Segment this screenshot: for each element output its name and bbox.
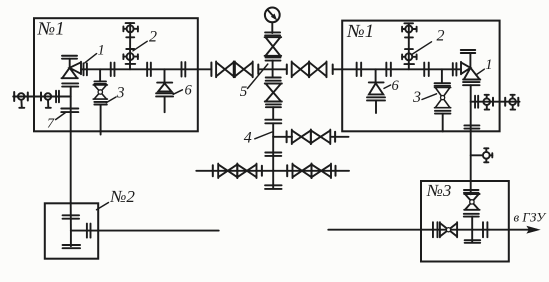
svg-text:6: 6 (185, 83, 193, 99)
flange pair 7 (61, 108, 78, 110)
end tick of left sampling line (13, 92, 15, 101)
valve 6 (left): flange (156, 92, 173, 94)
flange pair below tee (266, 77, 281, 79)
wire: right descent to box No.3 (470, 131, 472, 194)
valve 3 (right): body (435, 88, 451, 108)
flange pair in box2 (branch) (86, 224, 88, 238)
valve 3 (right): lower flange (435, 110, 451, 112)
cock 2 (left) upper (127, 25, 134, 32)
flange pair (452, 63, 454, 76)
valve 6 (right): flange (367, 96, 385, 98)
angle valve 1 (left): cap flange (62, 55, 77, 57)
flange pair under box3 valve (464, 213, 479, 215)
svg-text:2: 2 (437, 28, 445, 45)
flange pair (482, 222, 484, 237)
wire: row-2 header (left) (196, 170, 273, 172)
valve 3 (left): lower flange (94, 101, 107, 103)
label 7 leader (56, 113, 66, 120)
gate valve (main) D (309, 61, 326, 77)
gate valve (main) B (235, 61, 253, 77)
angle valve 1 (left): stem (69, 59, 71, 68)
flange tick (27, 93, 29, 101)
valve 3 (left): body (93, 85, 107, 99)
gate valve (main) A (216, 61, 234, 77)
valve 3 (left): upper flange (94, 80, 106, 82)
label 2 (right) leader (413, 42, 432, 54)
wire: right sampling line y=101.7 (471, 101, 520, 103)
cock 2 (right) lower (405, 53, 412, 60)
wire: main header into right box (334, 68, 462, 70)
flange pair below angle valve (left) (62, 82, 78, 84)
cock 2 (left) bottom serif (126, 63, 136, 65)
side cock (483, 152, 490, 159)
valve below main tee: body (265, 84, 282, 102)
row-2 gate valve D (312, 164, 332, 178)
flange pair (385, 63, 387, 77)
valve 3 (right): lower stub (442, 114, 444, 132)
svg-text:7: 7 (47, 117, 55, 132)
label 4 leader (255, 132, 272, 139)
flange pair under gauge (265, 31, 280, 33)
wire: main header (left box) (81, 68, 211, 70)
tick after right pair (332, 65, 334, 75)
flange pair on descent in box3 (464, 189, 479, 191)
gate valve in box3 (440, 222, 457, 237)
wire: left descent inside box (70, 87, 72, 132)
row-2 tick right-1 (286, 165, 288, 176)
cock 2 (left) lower (127, 53, 134, 60)
wire: box3 cap stub (471, 230, 473, 242)
flange pair on right sampling line (474, 96, 476, 108)
label No.2 leader (97, 203, 109, 210)
wire: bottom header (right segment) (328, 229, 421, 231)
flange tick on riser (126, 48, 134, 50)
box3 end cap flange (465, 239, 481, 241)
box2 end cap flange (63, 244, 81, 246)
flange pair on sampling line (55, 91, 57, 103)
valve 6 (right): drain stub (375, 101, 377, 114)
wire: row-1 tail (331, 136, 349, 138)
flange tick (492, 98, 494, 106)
flange tick (40, 93, 42, 101)
flange pair (181, 62, 183, 77)
valve 6 (left): stub (164, 69, 166, 82)
valve 3 (left): upper stub (99, 69, 101, 81)
flange tick on riser (126, 36, 134, 38)
label 1 (left) leader (85, 54, 97, 63)
gauge stem (271, 22, 273, 33)
valve 5: body (265, 37, 282, 56)
label 2 (left) leader (133, 41, 147, 51)
label 3 (right) leader (422, 94, 437, 100)
pressure gauge (265, 7, 280, 22)
row-2 tick far left (212, 165, 214, 176)
svg-text:5: 5 (240, 84, 248, 100)
row-2 gate valve B (237, 164, 256, 178)
svg-text:1: 1 (98, 42, 105, 58)
flange pair above tee (266, 56, 281, 58)
svg-text:3: 3 (412, 89, 421, 106)
wire: column through main tee (272, 61, 274, 78)
svg-text:6: 6 (392, 78, 400, 94)
wire: box3 column to tee (471, 217, 473, 230)
cock 2 (right) top serif (404, 22, 413, 24)
gate valve pair (main, right of center): tick (286, 65, 288, 75)
wire: box2 cap stub (70, 231, 72, 247)
cock (left sampling #1) (18, 93, 25, 100)
wire: column to row-1 tee (272, 123, 274, 137)
gate valve pair (main, left of center): tick (210, 63, 212, 77)
wire: outlet arrow (490, 229, 537, 231)
flange pair (110, 63, 112, 77)
flange pair (83, 63, 85, 75)
wire: column between rows (272, 137, 274, 171)
end tick of right sampling line (517, 98, 519, 106)
flange tick on riser (right) (405, 36, 413, 38)
row-1 gate valve B (311, 130, 330, 144)
wire: main header to center tee (259, 68, 287, 70)
label 6 (right) leader (384, 85, 391, 88)
riser of cocks 2 (left) (129, 23, 131, 69)
valve 3 (left): lower stub (100, 105, 102, 135)
enclosure box No.1 (right) (342, 21, 499, 132)
flange pair between rows (265, 152, 281, 154)
flange pair (423, 63, 425, 77)
valve in box3: body (464, 194, 479, 210)
valve 6 (right): stub (375, 69, 377, 82)
row-2 tick right-2 (335, 166, 337, 176)
row-2 tick (261, 166, 263, 176)
angle valve 1 (right): body (461, 62, 480, 80)
tick after pair (257, 65, 259, 75)
valve 3 (right): upper stub (441, 69, 443, 83)
svg-text:4: 4 (244, 130, 252, 147)
cock (right sampling #2) (509, 98, 516, 105)
svg-text:3: 3 (116, 84, 125, 101)
flange pair below angle valve (right) (463, 81, 480, 83)
valve 6 (left): body (157, 82, 172, 84)
svg-text:№1: №1 (346, 22, 374, 42)
wire: left sampling line y=96.5 (13, 96, 70, 98)
flange pair (266, 103, 281, 105)
enclosure box No.1 (left) (34, 18, 198, 131)
row-1 tick right (334, 132, 336, 142)
wire: descent inside box2 (70, 203, 72, 230)
svg-text:в ГЗУ: в ГЗУ (514, 209, 548, 224)
svg-text:№3: №3 (426, 181, 452, 200)
label 6 (left) leader (173, 90, 182, 95)
flange tick on riser (right) (405, 48, 413, 50)
wire: row-2 header (right) (273, 170, 349, 172)
angle valve 1 (right): stem (469, 53, 471, 68)
wire: row-1 header (273, 136, 292, 138)
wire: bottom header (left segment) (71, 230, 219, 232)
cock 2 (right) upper (405, 26, 412, 33)
label 3 (left) leader (106, 97, 116, 103)
row-1 tick (286, 131, 288, 142)
flange pair (432, 222, 434, 237)
svg-text:№1: №1 (37, 19, 65, 39)
svg-text:1: 1 (485, 57, 492, 73)
flange pair (146, 63, 148, 77)
flange pair (356, 63, 358, 77)
label 1 (right) leader (476, 69, 484, 75)
angle valve 1 (right): cap flange (461, 49, 476, 51)
enclosure box No.2 (45, 203, 98, 258)
label 5 leader (248, 64, 268, 89)
wire: right descent inside box (470, 85, 472, 131)
wire: column below row-2 (272, 171, 274, 188)
angle valve 1 (left): body (62, 62, 82, 78)
valve 6 (right): body (369, 81, 384, 83)
cock 2 (left) top serif (126, 22, 135, 24)
wire: bottom header through box3 (421, 229, 490, 231)
flange tick (504, 98, 506, 106)
gate valve (main) C (292, 61, 309, 77)
spool 4: flange pair (265, 119, 281, 121)
row-2 gate valve A (218, 164, 237, 178)
wire: column (272, 107, 274, 119)
wire: left descent to box No.2 (70, 131, 72, 203)
side cock branch (471, 154, 482, 156)
column end cap flange (265, 184, 282, 186)
valve 6 (left): drain stub (164, 97, 166, 113)
row-1 gate valve A (292, 130, 311, 144)
flange pair in box2 (upper) (63, 214, 80, 216)
flange pair above box edge (right descent) (464, 124, 479, 126)
cock (right sampling #1) (483, 98, 490, 105)
cock 2 (right) bottom serif (404, 63, 414, 65)
svg-text:№2: №2 (109, 187, 135, 206)
enclosure box No.3 (421, 181, 509, 262)
svg-text:2: 2 (149, 28, 157, 45)
cock (left sampling #2) (45, 93, 52, 100)
riser of cocks 2 (right) (408, 23, 410, 69)
valve 3 (right): upper flange (435, 82, 451, 84)
row-2 gate valve C (293, 164, 312, 178)
